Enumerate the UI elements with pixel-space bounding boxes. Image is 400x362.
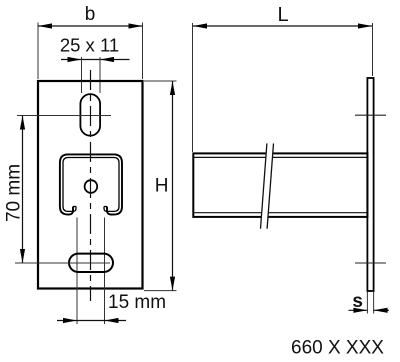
- svg-text:15 mm: 15 mm: [108, 292, 166, 313]
- svg-text:b: b: [85, 4, 96, 25]
- svg-text:H: H: [155, 176, 169, 197]
- svg-text:660 X XXX: 660 X XXX: [291, 338, 384, 359]
- svg-text:70 mm: 70 mm: [4, 164, 25, 222]
- svg-text:s: s: [352, 291, 363, 312]
- svg-text:25 x 11: 25 x 11: [60, 35, 119, 56]
- svg-text:L: L: [277, 4, 288, 26]
